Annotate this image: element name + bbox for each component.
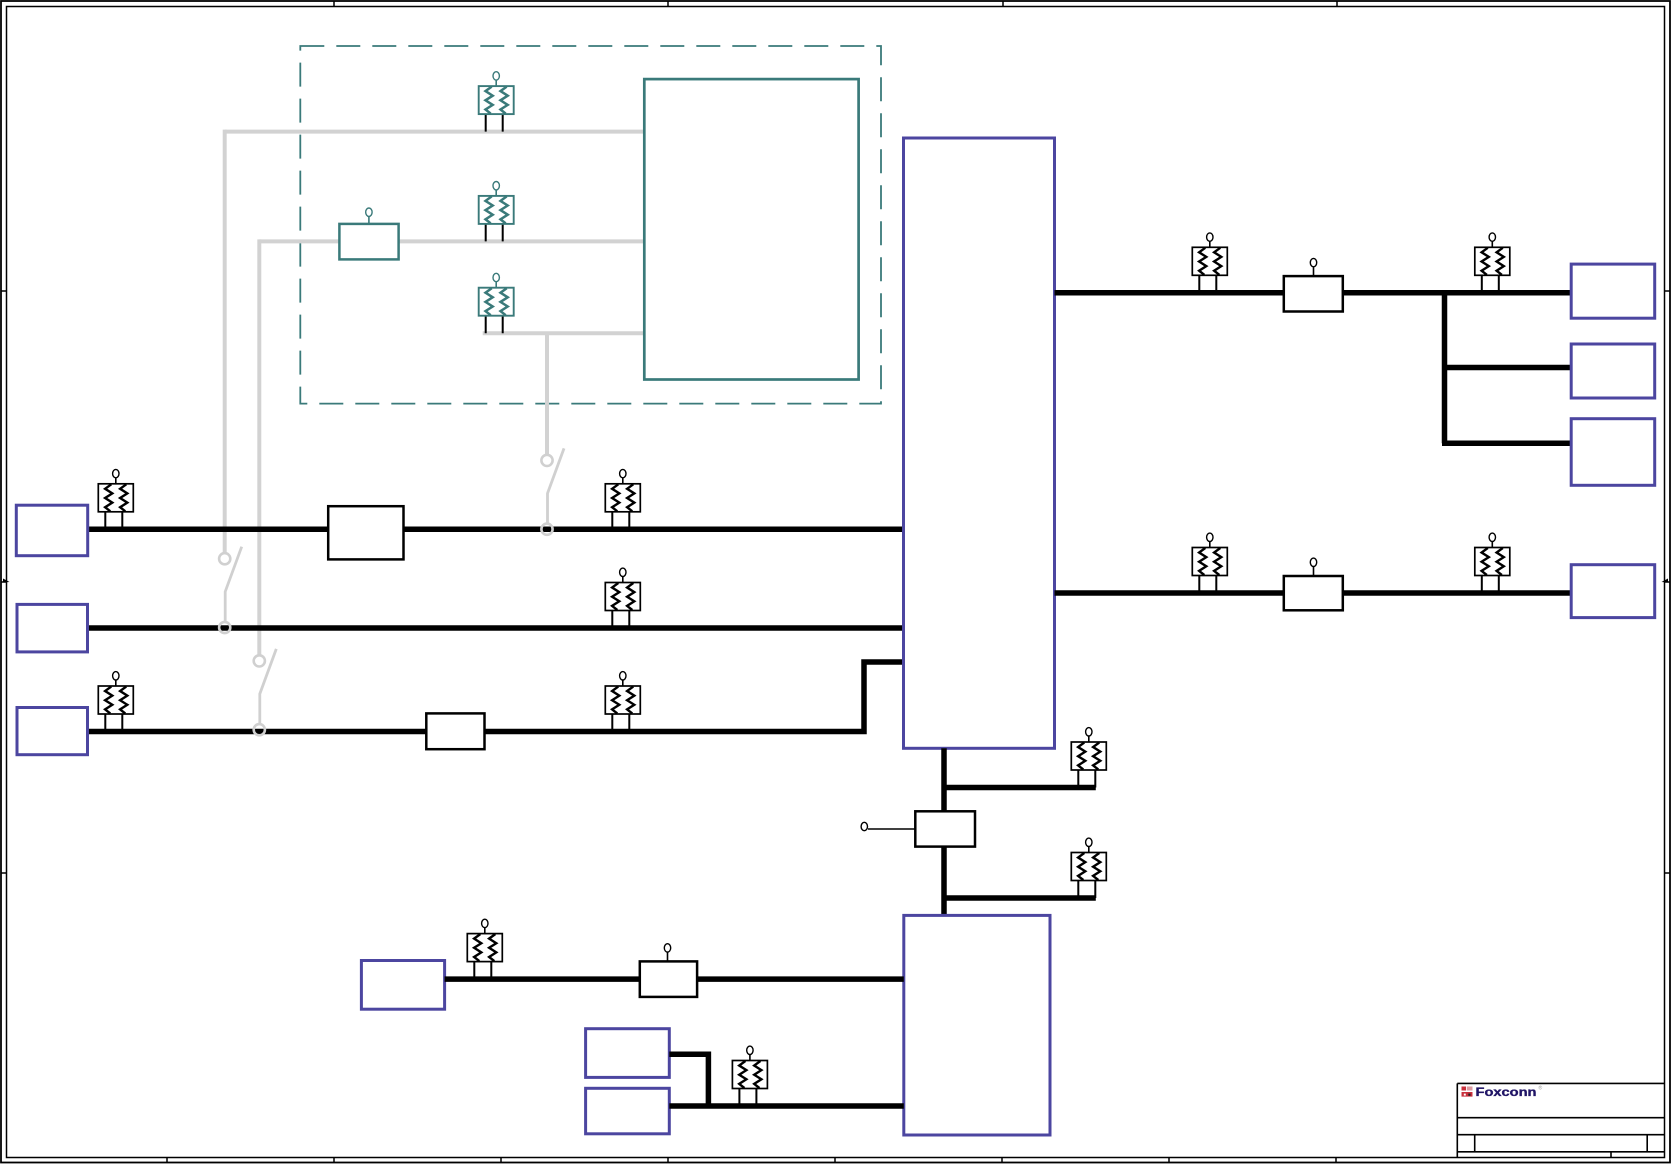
resistor pack RN13 with power pin — [1071, 728, 1106, 788]
bus 1R segment a — [1055, 290, 1285, 296]
connector J4 (blue) — [1571, 264, 1655, 318]
switch SW1 (gray) — [219, 547, 242, 633]
spine lower segment — [941, 847, 947, 916]
resistor pack RN14 with power pin — [1071, 838, 1106, 898]
bus 1 left segment — [88, 527, 329, 533]
wire net B vertical (gray) — [257, 239, 261, 655]
wire net C horizontal (gray) — [483, 331, 645, 335]
bus 1 right segment — [404, 527, 904, 533]
wire from J10 to U10 — [669, 1103, 904, 1109]
component U5 (box on bus 1R) with power pin — [1284, 258, 1343, 311]
branch wire to J5 — [1445, 365, 1572, 371]
resistor pack RN3 (teal) with power pin — [479, 273, 514, 333]
resistor pack RN7 with power pin — [98, 672, 133, 732]
connector J8 (blue) — [361, 961, 444, 1010]
connector J7 (blue) — [1571, 565, 1655, 618]
resistor pack RN9 with power pin — [1192, 233, 1227, 293]
wire from J9 — [669, 1054, 708, 1106]
bus E segment a — [445, 976, 641, 982]
resistor pack RN12 with power pin — [1475, 533, 1510, 593]
component U6 (box on bus 2R) with power pin — [1284, 558, 1343, 610]
bus 2R segment b — [1343, 590, 1571, 596]
bus 3 left segment — [88, 729, 428, 735]
wire net C vertical (gray) — [545, 333, 549, 454]
svg-text:®: ® — [1539, 1085, 1543, 1092]
connector J9 (blue) — [586, 1029, 670, 1078]
component U3 (box on bus 1) — [328, 506, 403, 559]
resistor pack RN5 with power pin — [605, 469, 640, 529]
switch SW3 (gray) — [541, 448, 564, 534]
component U8 (box on bus E) with power pin — [640, 944, 697, 997]
resistor pack RN1 (teal) with power pin — [479, 72, 514, 132]
module boundary (teal dashed) — [300, 46, 881, 404]
spine branch 1 — [944, 785, 1096, 791]
bus 3 right segment with jog — [485, 662, 904, 732]
block U1 (large teal box) — [644, 79, 858, 379]
component U7 (box on spine) with input pin circle — [861, 811, 975, 846]
resistor pack RN16 with power pin — [732, 1046, 767, 1106]
resistor pack RN4 with power pin — [98, 469, 133, 529]
component U4 (box on bus 3) — [426, 713, 484, 749]
component U2 (teal box on net B) with power pin — [339, 208, 398, 259]
title block — [1457, 1083, 1664, 1157]
resistor pack RN15 with power pin — [467, 919, 502, 979]
svg-text:Foxconn: Foxconn — [1476, 1085, 1537, 1099]
spine upper segment — [941, 748, 947, 812]
wire net A vertical (gray) — [223, 130, 227, 553]
wire net B segment 2 (gray) — [399, 239, 645, 243]
switch SW2 (gray) — [254, 649, 277, 735]
connector J3 (blue) — [17, 708, 88, 755]
Foxconn logo — [1462, 1085, 1543, 1100]
block U9 (large purple box) — [904, 138, 1055, 748]
resistor pack RN11 with power pin — [1192, 533, 1227, 593]
connector J2 (blue) — [17, 604, 88, 652]
branch wire to J6 — [1442, 441, 1571, 447]
block U10 (lower purple box) — [904, 915, 1050, 1135]
resistor pack RN8 with power pin — [605, 672, 640, 732]
bus 2 — [88, 625, 904, 631]
connector J1 (blue) — [16, 505, 87, 556]
wire net B segment 1 (gray) — [259, 239, 339, 243]
bus 1R segment b — [1343, 290, 1571, 296]
resistor pack RN6 with power pin — [605, 568, 640, 628]
resistor pack RN10 with power pin — [1475, 233, 1510, 293]
bus E segment b — [697, 976, 904, 982]
junction drop to branches — [1442, 293, 1448, 444]
connector J5 (blue) — [1571, 344, 1655, 398]
resistor pack RN2 (teal) with power pin — [479, 182, 514, 242]
bus 2R segment a — [1055, 590, 1285, 596]
wire net A horizontal (gray) — [225, 130, 645, 134]
connector J6 (blue) — [1571, 419, 1655, 486]
connector J10 (blue) — [586, 1088, 670, 1134]
spine branch 2 — [944, 895, 1096, 901]
